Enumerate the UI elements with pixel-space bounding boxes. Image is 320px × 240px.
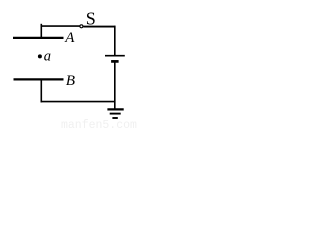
switch S blade xyxy=(83,26,115,28)
wire stub from plate B down xyxy=(40,79,42,102)
svg-text:S: S xyxy=(86,9,96,29)
wire right vertical down to battery xyxy=(114,26,116,56)
svg-text:A: A xyxy=(64,30,75,46)
ground bar 1 xyxy=(107,108,123,110)
wire stub from plate A up xyxy=(40,24,42,38)
plate B xyxy=(14,78,64,80)
ground bar 3 xyxy=(112,117,117,119)
svg-text:manfen5.com: manfen5.com xyxy=(61,119,137,129)
svg-text:B: B xyxy=(66,72,75,89)
ground bar 2 xyxy=(110,113,121,115)
battery long plate (+) xyxy=(105,55,125,57)
wire battery to ground vertical xyxy=(114,61,116,109)
battery short plate (-) xyxy=(111,60,119,63)
wire bottom horizontal xyxy=(41,101,116,103)
node a dot xyxy=(38,54,42,58)
wire top horizontal to switch xyxy=(41,25,80,27)
switch S pivot circle xyxy=(80,25,83,28)
svg-text:a: a xyxy=(44,48,51,64)
plate A xyxy=(13,37,64,39)
